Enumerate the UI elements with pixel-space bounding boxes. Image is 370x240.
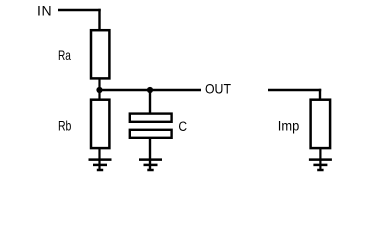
wire capacitor to ground [149,138,151,171]
ground under Rb [89,160,112,170]
capacitor C top plate [130,114,172,122]
svg-text:C: C [178,118,187,134]
capacitor C bottom plate [130,130,172,138]
resistor Rb [91,100,109,148]
svg-text:Imp: Imp [278,118,299,134]
wire IN vertical drop to Ra [98,9,100,30]
node junction at capacitor [147,87,153,93]
node junction at Ra/Rb [96,87,102,93]
svg-text:OUT: OUT [205,81,231,97]
resistor Imp [311,100,331,148]
wire Imp to ground [319,148,321,171]
wire node to capacitor [149,90,151,114]
wire Ra to Rb [98,79,100,101]
wire IN horizontal [58,9,101,11]
svg-text:Ra: Ra [58,47,71,63]
svg-text:IN: IN [37,2,52,18]
svg-text:Rb: Rb [58,118,72,134]
wire Imp horizontal [268,89,321,91]
wire node to OUT [100,89,202,91]
ground under capacitor [139,160,162,170]
wire Rb to ground [98,148,100,171]
wire Imp vertical drop [319,89,321,100]
ground under Imp [309,160,332,170]
resistor Ra [91,30,109,78]
